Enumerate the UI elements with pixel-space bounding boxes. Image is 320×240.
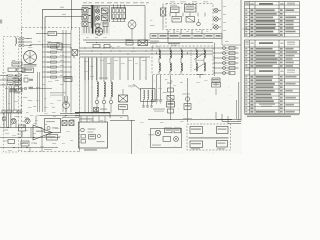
contact circles under chokes (95, 100, 112, 107)
wires to right devices (213, 48, 239, 73)
bus components (93, 39, 131, 48)
lamp unit left (149, 128, 182, 148)
reactor grounds (142, 106, 153, 107)
generator label box (22, 68, 34, 73)
labels above unit (170, 1, 208, 2)
paper speckle (0, 0, 300, 154)
relay in enclosure (30, 43, 71, 50)
table third section rows (245, 75, 300, 114)
table upper rows text (245, 9, 296, 36)
wire label 15A (60, 7, 66, 15)
component top of enclosure (36, 32, 71, 36)
crossed elements (62, 121, 74, 126)
scattered wire number labels (2, 20, 229, 151)
signal lamps right (213, 8, 221, 29)
mid drop wires (85, 58, 111, 113)
labels above dashboard (83, 2, 149, 3)
aux box right (211, 79, 221, 95)
wire battery feed upper (43, 9, 84, 30)
ammeter thick lead (91, 5, 94, 34)
dashboard drop wires (84, 27, 107, 34)
bus drop wires (85, 58, 146, 81)
gauge P1 (128, 19, 136, 30)
connector X1 (95, 28, 103, 36)
generator G1 (24, 51, 37, 66)
generator phase wires (7, 86, 15, 113)
control box A2 (45, 119, 61, 133)
element box mid (94, 108, 108, 112)
enclosure vertical wires (43, 30, 72, 112)
margin column marks (222, 0, 226, 45)
dashed enclosure left (22, 28, 80, 152)
relay KV1 (170, 5, 179, 13)
frame line left of table (239, 0, 241, 121)
switch block SA1 (102, 8, 109, 27)
choke coils L1-L3 (97, 58, 112, 100)
resistor block R-bank (126, 40, 159, 46)
exciter coil cluster (16, 37, 33, 47)
rectifier VD block (119, 89, 128, 114)
main horizontal bus wires (80, 40, 213, 57)
feed wires to mid (40, 113, 80, 118)
right device column (223, 46, 236, 74)
shunt box (19, 125, 26, 137)
transformer primary coils (159, 48, 182, 75)
terminal ladder (42, 46, 71, 78)
regulator block AB (185, 5, 197, 13)
contactor blocks (172, 17, 195, 23)
brush block (5, 88, 22, 92)
upper right dashed box (166, 4, 213, 30)
vertical component chain (153, 75, 175, 120)
regulator relay cluster (14, 72, 52, 112)
unit small meter (197, 19, 201, 26)
junction box label (84, 149, 97, 150)
relay block K1-K4 (112, 5, 126, 22)
edge blob (0, 20, 2, 24)
transformer star point (196, 75, 204, 79)
junction box interior (81, 128, 105, 143)
table third header (245, 68, 300, 75)
diode VD1 (11, 118, 16, 123)
bus junction cluster (70, 47, 78, 57)
bottom bus bars (75, 113, 128, 118)
reactor coils (128, 84, 155, 106)
regulator triangle (33, 125, 52, 140)
net label (222, 29, 250, 46)
table second section rows (245, 47, 300, 68)
table caption line (245, 115, 300, 117)
panel outline (110, 6, 146, 43)
unit block right (187, 124, 231, 150)
unit internal wires (168, 13, 205, 43)
transformer secondary coils (191, 48, 206, 72)
bottom left rails (0, 137, 60, 148)
diode VD2 (25, 118, 30, 123)
bottom-left clutter (3, 116, 38, 149)
left feed wires (0, 75, 22, 86)
lower box (47, 135, 58, 141)
indicator lamps HL1 HL2 (95, 7, 101, 28)
transformer label (168, 43, 180, 46)
connector X2 lower (50, 77, 72, 114)
corner wires right (216, 100, 241, 123)
transformer dashed box (152, 46, 213, 75)
lower terminal row (0, 110, 22, 113)
wire long vertical left (70, 0, 72, 30)
starter chain (182, 78, 192, 122)
wire battery feed lower (45, 17, 83, 31)
dashboard top rail (82, 5, 109, 7)
junction dots (42, 33, 188, 114)
regulator boxes (8, 62, 25, 72)
battery strap wires (0, 113, 42, 128)
phase grounds (151, 75, 163, 103)
table second header (245, 40, 300, 47)
bottom stub wires (30, 128, 52, 153)
separator line above units (148, 119, 232, 121)
connector left of unit (161, 4, 166, 31)
parts table upper section grid (245, 2, 300, 37)
dashed separator mid (79, 28, 81, 152)
junction box body (79, 116, 108, 148)
terminal strip labels (150, 34, 222, 38)
rectifier diode blocks (7, 75, 21, 85)
far-left dashed box (3, 37, 19, 153)
wire to bottom right (110, 116, 135, 154)
right vertical feed (212, 43, 220, 87)
wire dashed panel border top (21, 0, 23, 112)
dashboard gray wash (81, 5, 110, 35)
fuse block FU1 (82, 8, 91, 27)
table header row (245, 3, 295, 6)
